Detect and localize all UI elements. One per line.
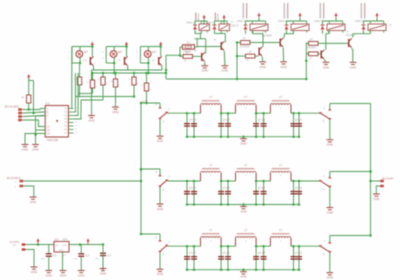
svg-text:GND: GND <box>157 207 163 211</box>
svg-text:3D-CN-B?: 3D-CN-B? <box>382 178 394 181</box>
svg-text:3D-CN-BU2: 3D-CN-BU2 <box>7 176 21 180</box>
svg-text:GND: GND <box>22 148 28 152</box>
svg-text:GND: GND <box>323 65 329 69</box>
svg-text:GND: GND <box>240 275 246 279</box>
svg-text:GND: GND <box>60 274 66 278</box>
svg-text:IC1: IC1 <box>46 101 51 105</box>
svg-text:GND: GND <box>78 274 84 278</box>
svg-text:C1?: C1? <box>107 255 112 257</box>
svg-text:GND+T?: GND+T? <box>278 20 288 23</box>
svg-text:(N RA0?: (N RA0? <box>346 34 356 37</box>
svg-text:C? C?: C? C? <box>258 119 266 122</box>
svg-text:S: S <box>163 187 165 191</box>
svg-text:C? C?: C? C? <box>258 187 266 190</box>
svg-text:4N?: 4N? <box>118 51 123 54</box>
svg-text:GND: GND <box>327 276 333 280</box>
svg-text:C? C?: C? C? <box>189 252 197 255</box>
svg-text:GND: GND <box>30 200 36 204</box>
svg-text:GND+1?: GND+1? <box>186 22 196 24</box>
svg-text:C? C?: C? C? <box>258 252 266 255</box>
svg-text:GND: GND <box>280 65 286 69</box>
svg-text:12-15V=: 12-15V= <box>10 240 20 244</box>
svg-text:C? C?: C? C? <box>295 119 303 122</box>
svg-text:k: k <box>137 83 138 85</box>
svg-text:k: k <box>96 86 97 88</box>
svg-text:GND: GND <box>88 119 94 123</box>
svg-text:GND: GND <box>157 272 163 276</box>
svg-text:GND: GND <box>112 110 118 114</box>
svg-text:2N RA05: 2N RA05 <box>240 45 250 48</box>
svg-text:C? C?: C? C? <box>295 252 303 255</box>
svg-text:S: S <box>323 252 325 256</box>
svg-text:2N RA05: 2N RA05 <box>262 34 272 37</box>
svg-text:GND: GND <box>327 143 333 147</box>
svg-text:C? C?: C? C? <box>223 252 231 255</box>
svg-text:GND: GND <box>32 148 38 152</box>
svg-text:GND+T?: GND+T? <box>237 20 247 23</box>
svg-text:GND+1?: GND+1? <box>206 22 216 24</box>
svg-text:C? C?: C? C? <box>189 119 197 122</box>
svg-text:GND+T?: GND+T? <box>355 20 365 23</box>
svg-text:78?5: 78?5 <box>62 238 68 241</box>
svg-text:C1?: C1? <box>53 255 58 257</box>
svg-text:GND: GND <box>222 69 228 73</box>
svg-text:GND: GND <box>259 65 265 69</box>
svg-text:C? C?: C? C? <box>189 187 197 190</box>
svg-text:GND: GND <box>240 210 246 214</box>
svg-text:2N RA0?: 2N RA0? <box>307 46 317 49</box>
svg-text:GND: GND <box>350 65 356 69</box>
svg-text:GND: GND <box>31 270 37 274</box>
svg-text:GND: GND <box>157 139 163 143</box>
svg-text:GND+T?: GND+T? <box>314 20 324 23</box>
svg-text:S: S <box>163 253 165 257</box>
svg-text:S: S <box>163 120 165 124</box>
svg-text:C1?: C1? <box>85 255 90 257</box>
svg-text:C1?5: C1?5 <box>142 100 149 103</box>
svg-text:IC3: IC3 <box>55 238 60 241</box>
svg-text:GND: GND <box>100 272 106 276</box>
svg-text:GND: GND <box>373 197 379 201</box>
svg-text:k: k <box>106 83 107 85</box>
svg-text:S: S <box>323 119 325 123</box>
svg-text:k: k <box>83 83 84 85</box>
svg-text:C? C?: C? C? <box>223 187 231 190</box>
svg-text:C? C?: C? C? <box>223 119 231 122</box>
svg-text:4N?: 4N? <box>84 51 89 54</box>
svg-text:GND: GND <box>327 211 333 215</box>
svg-text:k: k <box>150 89 151 91</box>
svg-text:C? C?: C? C? <box>295 187 303 190</box>
svg-text:GND: GND <box>240 142 246 146</box>
svg-text:k: k <box>119 85 120 87</box>
svg-text:3D-CN-3D41: 3D-CN-3D41 <box>5 106 20 109</box>
svg-text:OUT: OUT <box>63 245 68 247</box>
svg-text:4N?: 4N? <box>152 51 157 54</box>
svg-text:S: S <box>323 187 325 191</box>
svg-text:74HC238: 74HC238 <box>47 138 59 142</box>
svg-text:G5V-1?: G5V-1? <box>231 24 240 27</box>
svg-text:GND: GND <box>59 250 64 252</box>
svg-text:GND: GND <box>46 274 52 278</box>
svg-text:GND: GND <box>202 69 208 73</box>
